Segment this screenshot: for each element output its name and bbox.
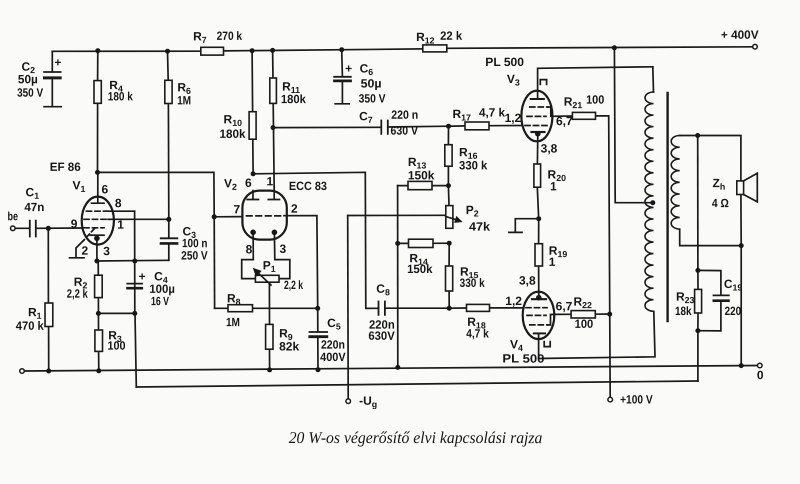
svg-text:16 V: 16 V xyxy=(151,294,169,308)
svg-text:4 Ω: 4 Ω xyxy=(712,196,729,210)
svg-text:Zh: Zh xyxy=(713,176,726,192)
svg-text:3: 3 xyxy=(103,244,110,258)
svg-text:6,7: 6,7 xyxy=(556,299,573,313)
svg-text:50µ: 50µ xyxy=(18,72,38,86)
svg-text:V2: V2 xyxy=(224,176,237,192)
svg-text:2,2 k: 2,2 k xyxy=(67,287,88,301)
svg-text:C19: C19 xyxy=(724,277,743,293)
svg-text:18k: 18k xyxy=(675,304,692,318)
svg-text:R12: R12 xyxy=(416,30,435,46)
svg-text:630 V: 630 V xyxy=(391,124,419,138)
svg-text:400V: 400V xyxy=(320,350,346,364)
svg-text:150k: 150k xyxy=(407,262,433,276)
svg-text:4,7 k: 4,7 k xyxy=(479,106,505,120)
svg-text:R22: R22 xyxy=(573,295,592,311)
svg-text:1: 1 xyxy=(267,174,274,188)
svg-text:ECC 83: ECC 83 xyxy=(289,179,327,193)
svg-text:+: + xyxy=(139,269,146,283)
svg-text:C5: C5 xyxy=(327,316,341,332)
svg-text:PL 500: PL 500 xyxy=(502,352,544,366)
svg-text:V3: V3 xyxy=(507,72,520,88)
svg-text:20 W-os végerősítő elvi kapcso: 20 W-os végerősítő elvi kapcsolási rajza xyxy=(289,428,543,447)
svg-text:2,2 k: 2,2 k xyxy=(284,278,303,292)
svg-text:EF 86: EF 86 xyxy=(50,160,81,174)
svg-text:47k: 47k xyxy=(469,220,490,234)
svg-text:350 V: 350 V xyxy=(17,86,43,100)
svg-text:220: 220 xyxy=(725,304,742,318)
svg-text:180 k: 180 k xyxy=(108,89,133,103)
svg-text:350 V: 350 V xyxy=(359,91,386,105)
svg-text:22 k: 22 k xyxy=(440,29,462,43)
svg-text:470 k: 470 k xyxy=(16,319,44,333)
svg-text:P2: P2 xyxy=(466,203,479,219)
svg-text:-Ug: -Ug xyxy=(359,394,377,410)
svg-text:220 n: 220 n xyxy=(391,108,418,122)
svg-text:47n: 47n xyxy=(24,200,44,214)
svg-text:P1: P1 xyxy=(263,258,276,274)
svg-text:+ 400V: + 400V xyxy=(721,28,759,42)
svg-text:C1: C1 xyxy=(26,185,40,201)
svg-text:be: be xyxy=(8,209,19,223)
svg-text:1: 1 xyxy=(550,179,557,193)
svg-text:V4: V4 xyxy=(510,337,523,353)
svg-text:C8: C8 xyxy=(376,282,390,298)
svg-text:180k: 180k xyxy=(220,127,246,141)
svg-text:6,7: 6,7 xyxy=(556,114,573,128)
svg-text:9: 9 xyxy=(71,217,78,231)
svg-text:8: 8 xyxy=(115,196,122,210)
svg-text:82k: 82k xyxy=(279,339,299,353)
svg-text:630V: 630V xyxy=(368,329,394,343)
svg-text:3: 3 xyxy=(279,242,286,256)
svg-text:R23: R23 xyxy=(676,290,695,306)
svg-text:1,2: 1,2 xyxy=(505,294,522,308)
svg-text:R8: R8 xyxy=(227,291,241,307)
svg-text:V1: V1 xyxy=(73,178,86,194)
svg-text:2: 2 xyxy=(291,202,298,216)
svg-text:6: 6 xyxy=(102,182,109,196)
svg-text:100: 100 xyxy=(108,339,126,353)
svg-text:330 k: 330 k xyxy=(459,158,488,172)
svg-text:1,2: 1,2 xyxy=(505,111,522,125)
svg-text:1: 1 xyxy=(549,255,556,269)
svg-text:C7: C7 xyxy=(359,109,373,125)
svg-text:330 k: 330 k xyxy=(460,276,485,290)
svg-text:150k: 150k xyxy=(408,168,435,182)
svg-text:R17: R17 xyxy=(452,107,471,123)
svg-text:1: 1 xyxy=(117,218,124,232)
svg-text:R7: R7 xyxy=(193,29,207,45)
svg-text:50µ: 50µ xyxy=(361,76,382,90)
svg-text:270 k: 270 k xyxy=(217,29,243,43)
svg-text:8: 8 xyxy=(246,242,253,256)
svg-text:0: 0 xyxy=(757,368,764,382)
svg-text:180k: 180k xyxy=(281,92,306,106)
svg-text:R10: R10 xyxy=(224,112,243,128)
svg-text:250 V: 250 V xyxy=(181,248,208,262)
svg-text:R21: R21 xyxy=(564,95,583,111)
svg-text:PL 500: PL 500 xyxy=(485,55,524,69)
svg-text:100: 100 xyxy=(586,93,604,107)
svg-text:1M: 1M xyxy=(226,315,240,329)
svg-text:3,8: 3,8 xyxy=(541,141,558,155)
svg-text:1M: 1M xyxy=(177,93,191,107)
svg-text:C6: C6 xyxy=(360,61,374,77)
svg-text:+: + xyxy=(345,61,352,75)
svg-text:+: + xyxy=(54,55,61,69)
svg-text:7: 7 xyxy=(234,202,241,216)
svg-text:+100 V: +100 V xyxy=(620,393,653,407)
svg-text:2: 2 xyxy=(81,244,88,258)
svg-text:100: 100 xyxy=(575,317,594,331)
svg-text:4,7 k: 4,7 k xyxy=(466,327,489,341)
svg-text:3,8: 3,8 xyxy=(519,274,536,288)
svg-text:6: 6 xyxy=(245,176,252,190)
